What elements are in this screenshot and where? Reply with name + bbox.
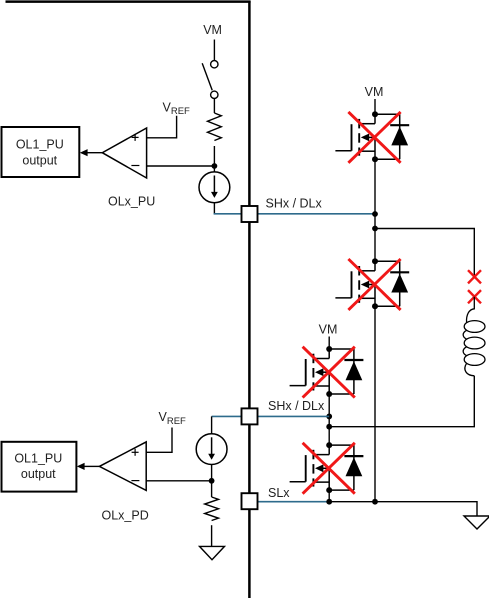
- svg-text:VREF: VREF: [159, 410, 187, 427]
- plus input marker: [132, 134, 139, 141]
- svg-text:output: output: [21, 467, 56, 481]
- net SHx/DLx 2 (teal) left segment: [212, 415, 242, 417]
- node load branch dot: [372, 226, 378, 232]
- svg-text:OLx_PD: OLx_PD: [102, 509, 149, 523]
- svg-text:VM: VM: [319, 323, 338, 337]
- chip boundary right edge: [248, 1, 251, 598]
- net SLx (teal) segment: [258, 501, 330, 503]
- svg-text:OL1_PU: OL1_PU: [16, 137, 64, 151]
- transistor M4 (LS2, disabled): [290, 442, 364, 493]
- transistor M2 (LS1, disabled): [335, 258, 409, 309]
- output wire to OL1_PU box: [87, 152, 102, 154]
- wire SHx2 pin to current source: [211, 416, 213, 434]
- wire VM to M3 drain: [328, 337, 330, 350]
- plus input marker (PD): [132, 449, 139, 456]
- current source I pull-down: [196, 434, 227, 465]
- minus input wire (PD): [146, 480, 211, 482]
- node SLx junction dot (HB1): [372, 499, 378, 505]
- OL1_PU output box (bottom): [2, 442, 77, 492]
- switch contact circle top: [211, 60, 218, 67]
- ground (pull-down): [200, 546, 225, 559]
- inductor load coil: [463, 297, 485, 376]
- svg-text:SHx / DLx: SHx / DLx: [268, 399, 325, 413]
- wire M4 source to SLx: [328, 490, 330, 502]
- wire current source to SHx pin: [213, 203, 215, 214]
- minus input marker (PD): [131, 480, 139, 482]
- wire (teal) to SHx/DLx pin: [214, 213, 242, 215]
- resistor R pull-up: [207, 113, 221, 141]
- svg-text:output: output: [22, 154, 57, 168]
- output arrowhead (PD): [77, 463, 85, 470]
- wire resistor to ground: [211, 525, 213, 546]
- resistor R pull-down: [205, 497, 219, 521]
- switch contact circle bottom: [211, 91, 218, 98]
- net SLx wire to ground: [329, 502, 477, 516]
- wire M1 source to SHx node: [374, 159, 376, 261]
- wire load branch to open point: [375, 229, 474, 277]
- op-amp OLx_PU comparator: [102, 128, 146, 178]
- svg-text:OLx_PU: OLx_PU: [108, 195, 155, 209]
- svg-text:SHx / DLx: SHx / DLx: [266, 197, 323, 211]
- open-circuit mark x2: [468, 290, 481, 303]
- pin SLx: [242, 493, 258, 509]
- wire M3 source to M4 drain: [328, 394, 330, 445]
- minus input marker: [131, 165, 139, 167]
- VREF wire to plus input: [147, 116, 177, 138]
- red X over M4: [303, 443, 355, 494]
- transistor M1 (HS1, disabled): [335, 111, 409, 162]
- wire resistor to node: [213, 146, 215, 172]
- wire VM to M1 drain: [374, 99, 376, 114]
- pin SHx/DLx (bottom): [242, 408, 258, 424]
- output arrowhead: [80, 149, 88, 156]
- svg-text:VREF: VREF: [163, 100, 191, 117]
- node inductor return dot: [326, 424, 332, 430]
- output wire to OL1_PU box (PD): [84, 465, 99, 467]
- node junction dot (pull-down sense): [209, 478, 215, 484]
- VREF wire to plus input (PD): [146, 428, 172, 453]
- wire current source to sense node: [211, 464, 213, 497]
- switch blade: [202, 63, 212, 90]
- ground (SLx return): [464, 516, 489, 529]
- node SLx junction dot (HB2): [326, 499, 332, 505]
- transistor M3 (HS2, disabled): [290, 346, 364, 397]
- svg-text:VM: VM: [203, 23, 222, 37]
- wire M2 source to SLx net: [374, 306, 376, 501]
- red X over M1: [348, 112, 400, 163]
- op-amp OLx_PD comparator: [99, 442, 146, 491]
- node SHx2 junction dot: [326, 414, 332, 420]
- chip boundary top edge: [6, 0, 251, 3]
- net SHx/DLx 2 (teal) right segment: [258, 415, 330, 417]
- open-circuit mark x1: [468, 270, 481, 283]
- minus input wire: [147, 165, 215, 167]
- wire switch to resistor: [213, 99, 215, 114]
- svg-text:VM: VM: [365, 85, 384, 99]
- svg-text:SLx: SLx: [268, 486, 290, 500]
- svg-text:OL1_PU: OL1_PU: [14, 451, 62, 465]
- red X over M3: [303, 347, 355, 398]
- pin SHx/DLx (top): [242, 206, 258, 222]
- node SHx1 junction dot: [372, 211, 378, 217]
- red X over M2: [348, 259, 400, 310]
- OL1_PU output box (top): [2, 127, 80, 177]
- node junction dot (pull-up sense): [212, 163, 218, 169]
- wire inductor return to SHx2 node: [329, 376, 474, 427]
- wire VM to switch: [213, 40, 215, 61]
- current source I pull-up: [199, 172, 230, 203]
- net SHx/DLx (teal) to half-bridge 1: [258, 213, 376, 215]
